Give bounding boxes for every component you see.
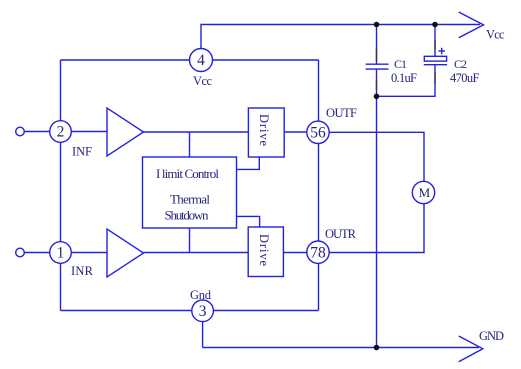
svg-text:Gnd: Gnd (190, 288, 212, 302)
junction dot gnd rail (374, 345, 380, 351)
terminal input INR (16, 248, 25, 257)
wire amp2 output (144, 252, 249, 254)
svg-text:4: 4 (197, 52, 205, 69)
wire gnd rail (203, 347, 479, 349)
wire pin4 row (61, 59, 319, 61)
wire right bus vertical to pins 56/78 (318, 60, 320, 311)
pin 1 circle (50, 242, 94, 278)
svg-text:Shutdown: Shutdown (165, 208, 210, 223)
wire gnd row (61, 310, 319, 312)
wire C1 pin lead dark bottom (376, 80, 378, 90)
svg-text:M: M (419, 185, 431, 200)
svg-text:1: 1 (57, 245, 65, 262)
pin 56 circle (307, 106, 357, 144)
wire left bus vertical (60, 60, 62, 311)
wire input INF (25, 131, 108, 133)
svg-text:OUTR: OUTR (325, 227, 357, 241)
wire stub control box bottom (189, 228, 191, 253)
wire supply bus vertical (376, 25, 378, 65)
wire control box to drive1 (237, 157, 260, 169)
wire pin56 to motor (329, 132, 424, 252)
wire control box to drive2 (237, 216, 260, 227)
svg-text:2: 2 (57, 124, 65, 141)
op-amp A1 triangle (107, 108, 144, 156)
Vcc arrow (459, 12, 505, 41)
pin 2 circle (50, 121, 92, 159)
wire C1 pin lead dark top (376, 48, 378, 61)
svg-text:OUTF: OUTF (326, 106, 357, 120)
wire top rail Vcc (201, 25, 480, 49)
svg-text:Vcc: Vcc (193, 74, 212, 88)
svg-text:56: 56 (310, 124, 326, 141)
block Drive 2 (248, 227, 283, 277)
svg-text:3: 3 (199, 303, 207, 320)
GND arrow (459, 329, 504, 362)
junction dot top rail C2 (432, 22, 438, 28)
svg-text:INR: INR (71, 264, 94, 278)
junction dot top rail C1 (374, 22, 380, 28)
svg-text:INF: INF (72, 145, 92, 159)
svg-text:GND: GND (479, 329, 504, 343)
wire C2 pin lead dark bottom (434, 73, 436, 85)
svg-text:470uF: 470uF (450, 71, 480, 85)
block Drive 1 (248, 108, 284, 157)
wire C2 pin lead dark top (434, 40, 436, 50)
wire input INR (25, 252, 108, 254)
svg-text:Drive: Drive (257, 114, 271, 146)
svg-text:C1: C1 (394, 57, 407, 71)
svg-text:0.1uF: 0.1uF (391, 71, 417, 85)
svg-text:Vcc: Vcc (486, 27, 505, 41)
capacitor C2 polarized (424, 48, 480, 85)
svg-text:Thermal: Thermal (170, 192, 210, 207)
svg-text:C2: C2 (454, 57, 467, 71)
block I limit Control / Thermal Shutdown (143, 157, 237, 228)
pin 78 circle (307, 227, 357, 263)
op-amp A2 triangle (107, 229, 144, 277)
junction dot C1 bottom (374, 94, 380, 100)
terminal input INF (16, 127, 25, 136)
wire amp1 output (144, 131, 249, 133)
wire stub control box top (189, 132, 191, 157)
pin 3 circle (190, 288, 213, 322)
wire drive2 to pin78 (283, 252, 306, 254)
wire C2 branch (434, 25, 436, 57)
wire drive1 to pin56 (284, 131, 307, 133)
svg-text:Drive: Drive (257, 234, 271, 266)
motor M (412, 181, 434, 203)
capacitor C1 (366, 57, 417, 85)
wire pin3 stub down (202, 311, 204, 348)
svg-text:78: 78 (310, 244, 326, 261)
svg-text:I limit Control: I limit Control (156, 166, 219, 181)
pin 4 circle (190, 49, 213, 89)
